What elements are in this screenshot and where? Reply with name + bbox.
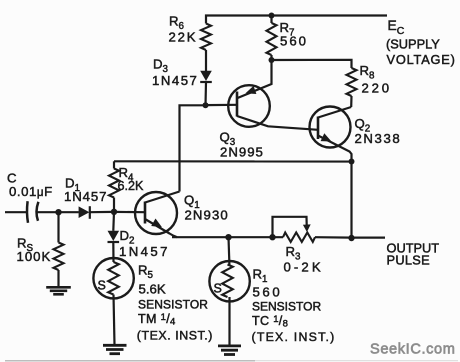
wire input lead xyxy=(5,211,27,213)
ground R5 xyxy=(103,345,127,353)
svg-text:5.6K: 5.6K xyxy=(139,282,166,297)
node supply rail junction xyxy=(269,13,275,19)
svg-text:1N457: 1N457 xyxy=(152,73,198,88)
wire output line xyxy=(172,236,283,238)
sensistor R5 xyxy=(93,258,133,345)
svg-text:R1: R1 xyxy=(253,267,268,286)
svg-text:1N457: 1N457 xyxy=(64,189,107,204)
resistor R4 xyxy=(113,161,115,168)
svg-text:(TEX. INST.): (TEX. INST.) xyxy=(252,330,336,344)
wire R7 junction to R8 top xyxy=(272,60,352,68)
wire Q2 emitter to output node xyxy=(350,162,352,239)
svg-text:R8: R8 xyxy=(360,63,376,82)
resistor R6 xyxy=(201,24,211,51)
svg-text:EC: EC xyxy=(388,18,405,37)
svg-text:R5: R5 xyxy=(138,263,154,282)
transistor Q1 2N930 (NPN) xyxy=(114,192,180,238)
diode D1 xyxy=(79,206,114,219)
ground R1 xyxy=(218,346,241,355)
wire node to Q3 base xyxy=(206,104,238,106)
svg-text:(SUPPLY: (SUPPLY xyxy=(386,37,440,52)
wire top supply rail xyxy=(206,16,387,24)
resistor RS xyxy=(54,212,64,287)
resistor R7 xyxy=(270,16,272,24)
svg-text:TC 1/8: TC 1/8 xyxy=(252,314,288,330)
node output junction xyxy=(348,235,354,241)
ground RS xyxy=(46,287,71,294)
svg-text:0-2K: 0-2K xyxy=(284,260,324,275)
sensistor R1 xyxy=(209,237,249,345)
svg-text:2N995: 2N995 xyxy=(220,145,264,160)
svg-text:TM 1/4: TM 1/4 xyxy=(138,312,176,328)
svg-text:PULSE: PULSE xyxy=(387,253,430,268)
svg-text:0.01μF: 0.01μF xyxy=(9,184,53,199)
svg-text:VOLTAGE): VOLTAGE) xyxy=(387,52,456,67)
diode D3 xyxy=(200,71,212,106)
svg-text:(TEX. INST.): (TEX. INST.) xyxy=(137,329,213,343)
svg-text:2N338: 2N338 xyxy=(355,131,402,146)
wire feedback R4 top to Q2 emitter xyxy=(114,160,352,162)
node input RS junction xyxy=(55,209,61,215)
svg-text:S: S xyxy=(214,282,222,296)
node D3 / Q3 base / Q1 collector xyxy=(203,102,209,108)
svg-text:2N930: 2N930 xyxy=(185,208,229,223)
wire R6 to D3 xyxy=(205,50,207,71)
wire to D1 xyxy=(59,211,79,213)
svg-text:220: 220 xyxy=(362,81,392,96)
wire output terminal xyxy=(352,237,386,239)
wire R3 right to output node xyxy=(315,236,352,239)
node R1 junction xyxy=(225,234,231,240)
svg-text:560: 560 xyxy=(280,34,308,49)
svg-text:22K: 22K xyxy=(169,30,198,45)
wire R8 to Q2 collector xyxy=(350,96,352,107)
svg-text:S: S xyxy=(98,279,106,293)
svg-text:SeekIC.com: SeekIC.com xyxy=(370,342,455,358)
potentiometer R3 xyxy=(273,217,316,242)
transistor Q2 2N338 (NPN) xyxy=(310,107,352,162)
node R3 left junction xyxy=(269,234,275,240)
svg-text:SENSISTOR: SENSISTOR xyxy=(138,298,208,312)
svg-text:100K: 100K xyxy=(17,249,52,264)
resistor R8 xyxy=(347,68,357,96)
svg-text:SENSISTOR: SENSISTOR xyxy=(252,300,321,314)
svg-text:560: 560 xyxy=(253,285,283,300)
svg-text:6.2K: 6.2K xyxy=(118,179,145,193)
capacitor C xyxy=(27,201,58,223)
wire node to Q1 collector xyxy=(180,105,206,191)
node Q2 emitter feedback junction xyxy=(349,159,355,165)
diode D2 xyxy=(108,212,120,262)
node R7 bottom junction xyxy=(269,57,275,63)
node D1 R4 D2 Q1-base junction xyxy=(111,209,117,215)
transistor Q3 2N995 (PNP) xyxy=(228,60,318,130)
svg-text:1N457: 1N457 xyxy=(119,244,170,259)
